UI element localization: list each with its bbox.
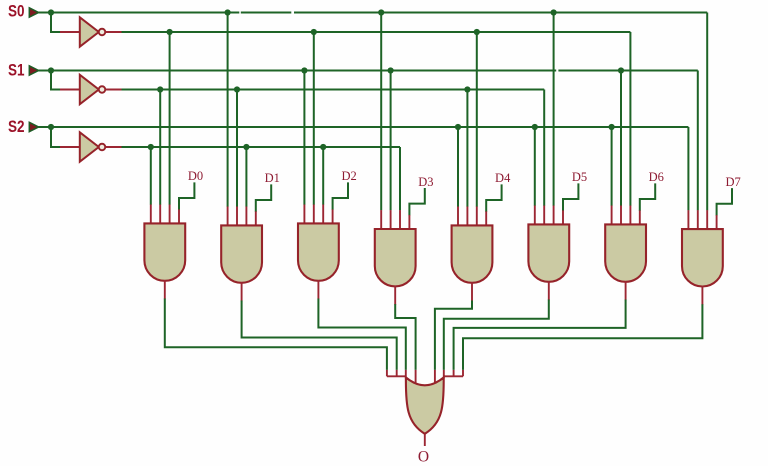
- wire OR input 4 stub: [415, 370, 417, 385]
- pin stub U7 pin3: [399, 210, 401, 230]
- input pin S1: [29, 66, 38, 75]
- pin stub U4 pin4 D0: [178, 209, 180, 224]
- pin stub U7 pin4 D3: [408, 215, 410, 230]
- wire inverter U3 output stub: [105, 146, 121, 148]
- wire U8 output to OR: [435, 301, 472, 370]
- not-gate U3 triangle: [80, 132, 99, 161]
- pin stub U5 pin2: [236, 207, 238, 227]
- wire U6 pin2 from net: [313, 32, 315, 205]
- or-gate U12: [406, 377, 444, 433]
- wire U9 pin1 from net: [534, 127, 536, 206]
- wire U5 pin3 from net: [245, 147, 247, 207]
- wire OR input 2 stub: [396, 370, 398, 376]
- junction net S1 x621: [618, 67, 624, 73]
- wire U9 output to OR: [444, 300, 549, 370]
- wire D2 lead: [333, 182, 348, 210]
- svg-text:S1: S1: [8, 61, 25, 80]
- wire U5 output stub: [241, 282, 243, 301]
- junction net S0 x554: [551, 9, 557, 15]
- wire U7 output to OR: [395, 304, 415, 370]
- wire U4 output stub: [164, 280, 166, 299]
- wire U9 pin2 from net: [543, 90, 545, 206]
- wire OR input bus right: [443, 375, 463, 377]
- wire net S1B bus: [121, 89, 544, 91]
- junction net S2B x151: [148, 144, 154, 150]
- svg-text:D4: D4: [495, 171, 511, 185]
- wire U6 pin3 from net: [322, 147, 324, 205]
- wire U6 output to OR: [318, 299, 405, 370]
- junction net S1 x391: [388, 67, 394, 73]
- wire U10 pin2 from net: [620, 71, 622, 206]
- pin stub U8 pin4 D4: [485, 211, 487, 226]
- pin stub U6 pin2: [313, 205, 315, 225]
- wire U7 pin1 from net: [380, 13, 382, 211]
- wire U11 output to OR: [463, 304, 702, 370]
- wire inverter U2 output stub: [105, 89, 121, 91]
- pin stub U9 pin3: [553, 206, 555, 226]
- wire U7 pin2 from net: [390, 71, 392, 211]
- wire S2 to inverter U3: [51, 127, 61, 147]
- junction net S0 x381: [378, 9, 384, 15]
- wire net S0B bus: [121, 31, 630, 33]
- pin stub U8 pin2: [466, 207, 468, 227]
- wire U9 pin3 from net: [553, 13, 555, 206]
- junction net S2 x458: [455, 124, 461, 130]
- pin stub U11 pin2: [697, 210, 699, 230]
- junction net S0B x477: [474, 29, 480, 35]
- pin stub U4 pin2: [159, 205, 161, 225]
- junction net S0 x51: [48, 9, 54, 15]
- wire U7 pin3 from net: [399, 147, 401, 210]
- wire U6 output stub: [317, 280, 319, 299]
- wire U11 pin3 from net: [706, 13, 708, 211]
- svg-text:D7: D7: [725, 175, 740, 189]
- wire U6 pin1 from net: [303, 71, 305, 205]
- junction net S1B x237: [234, 86, 240, 92]
- pin stub U4 pin1: [150, 205, 152, 225]
- and-gate U9: [528, 224, 569, 281]
- junction net S2 x535: [532, 124, 538, 130]
- wire OR input 6 stub: [443, 370, 445, 379]
- svg-text:D2: D2: [341, 169, 356, 183]
- wire U11 output stub: [701, 286, 703, 305]
- junction net S0B x314: [311, 29, 317, 35]
- wire OR input 7 stub: [453, 370, 455, 376]
- junction net S2 x51: [48, 124, 54, 130]
- wire U8 pin1 from net: [457, 127, 459, 207]
- svg-text:D0: D0: [188, 169, 203, 183]
- pin stub U10 pin2: [620, 206, 622, 226]
- pin stub U11 pin3: [706, 210, 708, 230]
- wire OR input 5 stub: [434, 370, 436, 385]
- and-gate U4: [144, 223, 185, 280]
- and-gate U5: [221, 225, 262, 282]
- svg-text:D3: D3: [418, 175, 433, 189]
- wire U5 output to OR: [242, 301, 397, 370]
- wire U5 pin2 from net: [236, 90, 238, 207]
- pin stub U6 pin3: [322, 205, 324, 225]
- pin stub U10 pin3: [629, 206, 631, 226]
- wire D0 lead: [179, 182, 194, 210]
- wire U5 pin1 from net: [227, 13, 229, 207]
- junction net S0 x228: [225, 9, 231, 15]
- pin stub U8 pin1: [457, 207, 459, 227]
- wire S0 to inverter U1: [51, 13, 61, 33]
- wire OR input 1 stub: [386, 370, 388, 376]
- input pin S2: [29, 122, 38, 131]
- pin stub U10 pin4 D6: [639, 210, 641, 225]
- svg-text:D5: D5: [572, 170, 587, 184]
- wire OR input 3 stub: [405, 370, 407, 379]
- wire U4 pin1 from net: [150, 147, 152, 205]
- wire D4 lead: [486, 184, 501, 212]
- wire U4 pin2 from net: [159, 90, 161, 205]
- wire inverter U1 output stub: [105, 31, 121, 33]
- input pin S0: [29, 8, 38, 17]
- wire D7 lead: [717, 188, 732, 216]
- pin stub U5 pin3: [245, 207, 247, 227]
- wire U10 pin1 from net: [611, 127, 613, 206]
- pin stub U11 pin1: [687, 210, 689, 230]
- wire D3 lead: [409, 188, 424, 216]
- and-gate U8: [452, 225, 493, 282]
- wire U11 pin1 from net: [687, 127, 689, 210]
- wire U9 output stub: [548, 281, 550, 300]
- not-gate U3 bubble: [99, 144, 106, 151]
- pin stub U9 pin2: [543, 206, 545, 226]
- wire U8 pin3 from net: [476, 32, 478, 207]
- not-gate U2 triangle: [80, 75, 99, 104]
- wire D5 lead: [563, 183, 578, 211]
- junction net S2 x612: [609, 124, 615, 130]
- wire U11 pin2 from net: [697, 71, 699, 211]
- junction net S2B x246: [243, 144, 249, 150]
- svg-text:S0: S0: [8, 2, 25, 21]
- wire net S0 bus segment a: [39, 12, 240, 14]
- wire net S0 bus segment c: [294, 12, 707, 14]
- pin stub U11 pin4 D7: [716, 215, 718, 230]
- svg-text:O: O: [418, 449, 429, 466]
- junction net S2B x323: [320, 144, 326, 150]
- not-gate U1 triangle: [80, 17, 99, 46]
- wire U10 output stub: [625, 281, 627, 300]
- pin stub U4 pin3: [169, 205, 171, 225]
- wire U8 pin2 from net: [466, 90, 468, 207]
- wire inverter U2 input stub: [60, 89, 79, 91]
- junction net S1B x160: [157, 86, 163, 92]
- junction net S1 x304: [301, 67, 307, 73]
- pin stub U9 pin1: [534, 206, 536, 226]
- wire D1 lead: [256, 184, 271, 212]
- wire U7 output stub: [394, 286, 396, 305]
- wire U8 output stub: [471, 282, 473, 301]
- pin stub U10 pin1: [611, 206, 613, 226]
- and-gate U11: [682, 229, 723, 286]
- pin stub U7 pin1: [380, 210, 382, 230]
- wire inverter U1 input stub: [60, 31, 79, 33]
- wire D6 lead: [640, 183, 655, 211]
- not-gate U2 bubble: [99, 86, 106, 93]
- pin stub U9 pin4 D5: [562, 210, 564, 225]
- wire net S0 bus segment b: [241, 12, 291, 14]
- pin stub U6 pin1: [303, 205, 305, 225]
- svg-text:D6: D6: [649, 170, 664, 184]
- and-gate U7: [375, 229, 416, 286]
- wire inverter U3 input stub: [60, 146, 79, 148]
- and-gate U6: [298, 223, 339, 280]
- wire U10 pin3 from net: [629, 32, 631, 206]
- svg-text:S2: S2: [8, 117, 25, 136]
- wire U4 pin3 from net: [169, 32, 171, 205]
- wire net S2 bus: [39, 126, 689, 128]
- wire S1 to inverter U2: [51, 71, 61, 90]
- junction net S1B x467: [464, 86, 470, 92]
- wire OR input 8 stub: [462, 370, 464, 376]
- junction net S0B x170: [167, 29, 173, 35]
- junction net S1 x51: [48, 67, 54, 73]
- wire net S2B bus: [121, 146, 400, 148]
- wire net S1 bus segment b: [558, 70, 697, 72]
- svg-text:D1: D1: [265, 171, 280, 185]
- pin stub U8 pin3: [476, 207, 478, 227]
- wire output O: [424, 435, 426, 447]
- not-gate U1 bubble: [99, 29, 106, 36]
- pin stub U5 pin1: [227, 207, 229, 227]
- pin stub U7 pin2: [390, 210, 392, 230]
- wire net S1 bus segment a: [39, 70, 557, 72]
- wire OR input bus left: [387, 375, 407, 377]
- and-gate U10: [605, 224, 646, 281]
- wire U4 output to OR: [165, 299, 387, 370]
- pin stub U6 pin4 D2: [332, 209, 334, 224]
- pin stub U5 pin4 D1: [255, 211, 257, 226]
- wire U10 output to OR: [454, 300, 626, 370]
